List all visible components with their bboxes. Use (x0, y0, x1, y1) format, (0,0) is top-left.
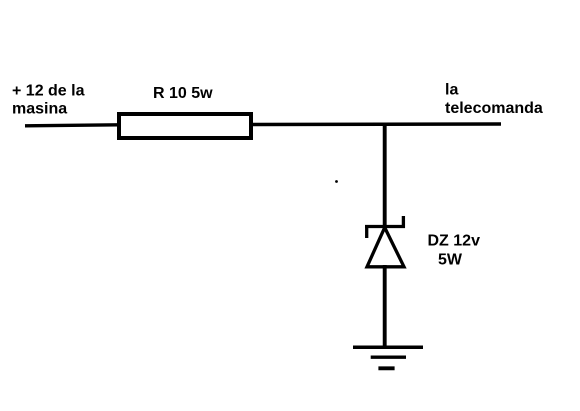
wire from zener anode to ground (383, 265, 387, 347)
wire junction down from output wire to zener cathode (383, 123, 387, 227)
value label: R 10 5w (153, 85, 213, 102)
svg-text:DZ 12v: DZ 12v (428, 233, 481, 250)
zener diode DZ cathode bar (bent zener bar) (365, 216, 405, 238)
resistor R (R 10 5w) body (119, 114, 251, 138)
svg-text:R 10 5w: R 10 5w (153, 85, 213, 102)
svg-text:5W: 5W (438, 251, 463, 268)
svg-text:la: la (445, 82, 458, 99)
svg-text:+ 12 de la: + 12 de la (12, 83, 85, 100)
wire from resistor R to output node (253, 122, 501, 126)
zener diode DZ anode triangle (367, 228, 404, 267)
stray ink dot (335, 180, 338, 183)
ground symbol (353, 347, 423, 368)
node: output label "la telecomanda" (445, 82, 543, 118)
node: +12V supply label "+ 12 de la masina" (12, 83, 85, 118)
wire from +12 supply to resistor R (25, 125, 119, 126)
svg-text:masina: masina (12, 101, 67, 118)
svg-text:telecomanda: telecomanda (445, 100, 543, 117)
value label: DZ 12v 5W (428, 233, 481, 269)
